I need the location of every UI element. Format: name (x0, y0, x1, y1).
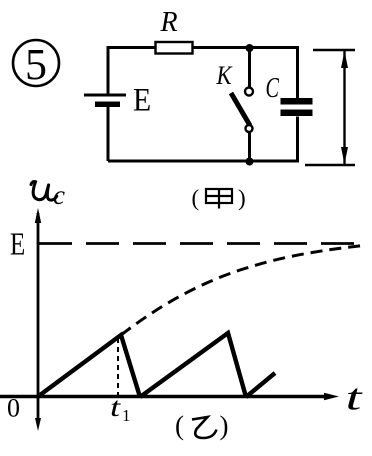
svg-text:R: R (159, 7, 177, 38)
svg-text:t: t (110, 392, 121, 422)
svg-text:): ) (220, 411, 229, 441)
svg-text:5: 5 (25, 40, 47, 89)
svg-text:E: E (133, 81, 151, 118)
svg-text:K: K (216, 62, 234, 91)
svg-text:1: 1 (122, 406, 131, 425)
svg-text:c: c (53, 180, 65, 210)
svg-text:): ) (238, 186, 246, 211)
svg-text:E: E (10, 227, 25, 263)
svg-text:0: 0 (7, 394, 20, 423)
svg-text:C: C (266, 73, 280, 104)
svg-text:(: ( (175, 411, 184, 441)
svg-text:(: ( (192, 186, 200, 211)
svg-text:t: t (346, 377, 364, 418)
